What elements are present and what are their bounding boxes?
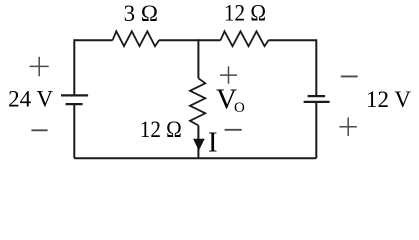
voltage source V2 12V long plate	[304, 101, 330, 103]
resistor R3 12ohm vertical zigzag	[190, 78, 205, 125]
svg-text:24 V: 24 V	[8, 87, 53, 112]
current arrow I head	[193, 139, 205, 151]
wire left vertical top (corner down to V1)	[73, 39, 75, 94]
wire right vertical top (corner down to V2)	[315, 39, 317, 95]
wire right vertical bottom (V2 to bottom-right corner)	[315, 102, 317, 158]
minus sign of V2	[341, 75, 358, 77]
wire node A to R2	[198, 39, 220, 41]
wire R1 to node A	[159, 39, 198, 41]
resistor R1 3ohm zigzag	[113, 31, 160, 46]
wire left vertical bottom (V1 to bottom-left corner)	[73, 104, 75, 158]
svg-text:O: O	[234, 100, 245, 116]
voltage source V1 24V short plate	[66, 103, 83, 105]
plus sign of V2	[339, 118, 357, 136]
svg-text:12 Ω: 12 Ω	[224, 1, 266, 26]
resistor R2 12ohm zigzag	[221, 31, 269, 46]
wire middle vertical top (node A down to R3)	[197, 39, 199, 78]
voltage source V1 24V long plate	[61, 94, 88, 96]
wire top-left segment (left corner to R1)	[74, 39, 112, 41]
svg-text:12 Ω: 12 Ω	[140, 117, 182, 142]
svg-text:I: I	[208, 127, 218, 159]
svg-text:3 Ω: 3 Ω	[124, 1, 158, 26]
voltage source V2 12V short plate	[308, 95, 326, 97]
wire R2 to top-right corner	[269, 39, 317, 41]
wire middle vertical bottom (R3 to bottom wire)	[197, 126, 199, 159]
wire bottom	[74, 157, 316, 159]
svg-text:12 V: 12 V	[366, 87, 411, 112]
minus sign of V1	[31, 129, 47, 131]
plus sign of Vo	[220, 66, 237, 83]
plus sign of V1	[30, 57, 49, 77]
minus sign of Vo	[225, 129, 242, 131]
